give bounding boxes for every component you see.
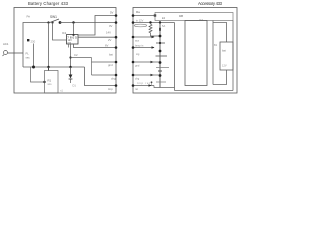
svg-text:12V: 12V [222,64,227,68]
node tap [69,56,71,58]
wire pin 14V [133,36,154,38]
wire pin gnd [133,61,159,63]
wire tap across [71,57,92,59]
module U2 frame [174,23,176,91]
svg-text:Ra: Ra [136,10,140,14]
svg-text:gnd: gnd [108,63,113,67]
svg-text:lamp in: lamp in [135,44,144,48]
wire IC pin gnd [68,44,70,48]
svg-text:Pri: Pri [27,15,31,19]
wire IC pin common down [70,44,72,67]
wire secondary drop A [48,23,50,68]
svg-text:ret: ret [135,87,138,91]
bus K1 [159,23,161,88]
wire feed drop [212,21,214,85]
svg-text:C2: C2 [74,53,78,57]
junction node [72,21,74,23]
wire IC pin sense [74,44,117,48]
svg-text:5V: 5V [110,11,114,15]
wire pin chg [133,74,159,76]
node stub [151,82,153,86]
svg-text:2V: 2V [108,38,112,42]
shunt block R1 [45,71,59,94]
wire IC out mid [78,36,116,38]
svg-text:k4: k4 [162,16,165,20]
svg-text:230: 230 [31,40,36,44]
svg-text:gnd: gnd [135,64,140,68]
wire IC out top to 5V terminal [78,16,116,36]
left schematic frame [14,8,116,94]
diode D1 [70,67,72,75]
svg-text:SW1: SW1 [50,15,57,19]
svg-text:K2: K2 [200,18,204,22]
transformer T1 primary mark [27,39,29,41]
svg-text:aux: aux [135,40,140,43]
svg-text:PL: PL [26,52,30,56]
wire secondary drop B [53,23,67,41]
svg-text:chg: chg [111,77,116,81]
wire main 12V rail [133,22,175,24]
svg-text:D1: D1 [73,84,77,88]
wire left riser [23,23,49,68]
svg-text:14V: 14V [106,31,111,35]
svg-text:sec: sec [26,57,31,60]
svg-text:6V: 6V [105,44,109,48]
wire battery feed [213,23,227,43]
wire J1 to node [8,52,24,54]
svg-text:Battery Charger 433: Battery Charger 433 [28,1,69,6]
svg-text:chg: chg [135,77,140,81]
module A box [185,21,207,86]
wire pin 6V [133,47,154,49]
terminal dot [115,36,118,39]
svg-text:tmp: tmp [108,87,113,91]
wire to gnd terminal [92,61,117,63]
terminal dot [115,21,118,24]
wire ground bus [23,66,85,68]
wire bus drop right [85,67,117,86]
svg-text:bat: bat [109,53,113,57]
svg-text:B1: B1 [214,43,218,47]
svg-text:in 12V: in 12V [136,19,144,23]
transformer T1 winding [33,44,35,68]
wire battery return [213,70,227,85]
wire tmp return [154,86,175,88]
terminal dot [115,46,118,49]
resistor R2 [149,24,160,36]
svg-text:sig: sig [136,52,140,56]
svg-text:5A: 5A [162,24,165,28]
svg-text:IC1: IC1 [62,31,67,35]
fuse F1 [134,24,147,27]
terminal dot 5V [115,14,118,17]
battery BT1 [220,42,233,70]
svg-text:0V: 0V [109,24,113,28]
svg-text:tmp ret: tmp ret [137,81,150,85]
wire sense drop [31,67,45,82]
svg-text:bat: bat [222,49,226,53]
wire supply in [133,15,155,17]
svg-text:sns: sns [48,83,53,86]
wire pin tmp [133,85,154,87]
header strip X1 [155,13,233,21]
svg-text:Accessory 433: Accessory 433 [198,1,223,6]
wire tap riser [91,58,93,76]
svg-text:R1: R1 [48,79,52,83]
right schematic frame [133,8,237,94]
bus pin ticks [159,28,161,31]
svg-text:C8: C8 [179,14,183,18]
svg-text:AC1: AC1 [3,42,9,46]
wire switch to right edge [60,22,116,24]
wire to chg terminal [92,74,117,76]
wire IC top feed [73,23,75,35]
